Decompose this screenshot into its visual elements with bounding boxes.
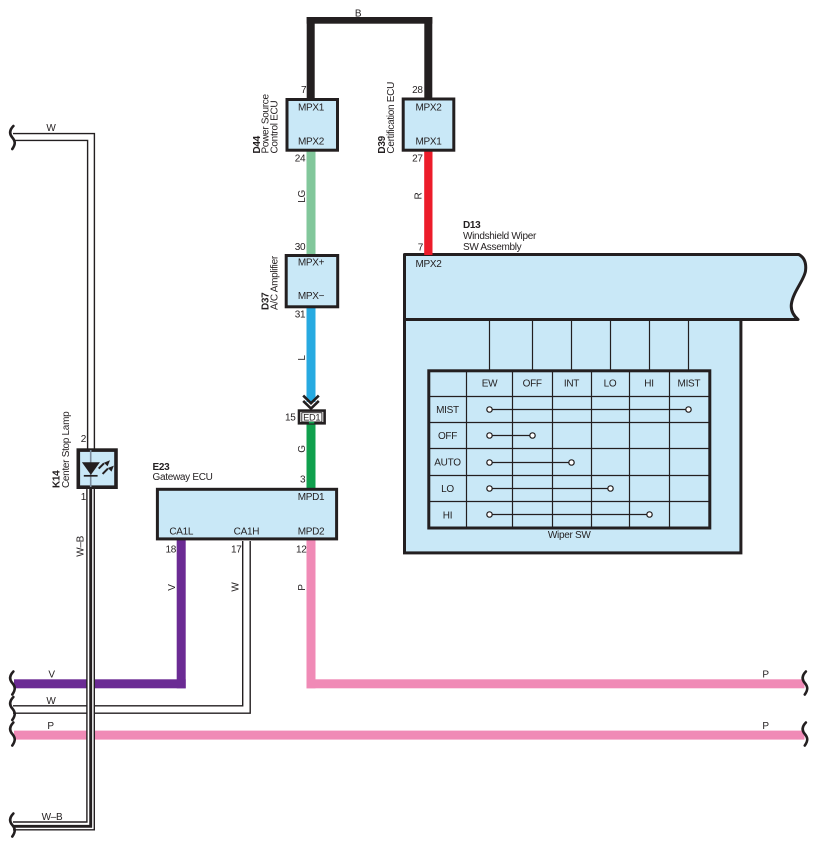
- svg-text:B: B: [355, 8, 362, 19]
- svg-text:P: P: [297, 584, 308, 591]
- svg-text:OFF: OFF: [523, 378, 542, 389]
- switch contact lines: [487, 407, 691, 517]
- wire break squiggle right P lower: [803, 723, 808, 746]
- lamp K14 Center Stop Lamp: [78, 450, 116, 487]
- svg-text:Center Stop Lamp: Center Stop Lamp: [61, 411, 72, 488]
- svg-text:MIST: MIST: [678, 378, 701, 389]
- svg-text:Certification ECU: Certification ECU: [386, 82, 397, 154]
- wire LO row contact: [490, 488, 611, 490]
- svg-text:CA1H: CA1H: [234, 526, 260, 537]
- svg-text:LO: LO: [441, 484, 454, 495]
- svg-text:MPX2: MPX2: [415, 102, 442, 113]
- wire break squiggle bottom W-B: [10, 814, 15, 837]
- label D44 designator (rotated): [252, 94, 281, 154]
- wire V (violet) from E23:18 CA1L down and left: [14, 539, 186, 688]
- svg-text:MPX+: MPX+: [298, 258, 325, 269]
- wire P (pink) from E23:12 MPD2 down then right: [307, 539, 805, 688]
- svg-text:30: 30: [295, 242, 306, 253]
- svg-text:MPX2: MPX2: [298, 137, 325, 148]
- connector D39 Certification ECU: [403, 99, 454, 150]
- connector D37 A/C Amplifier: [286, 256, 338, 307]
- svg-text:1: 1: [81, 492, 87, 503]
- svg-text:P: P: [762, 670, 769, 681]
- svg-text:EW: EW: [482, 378, 498, 389]
- svg-text:MPD1: MPD1: [298, 492, 325, 503]
- svg-text:INT: INT: [564, 378, 579, 389]
- wire R from D39:27 to D13:7: [424, 150, 432, 255]
- svg-text:P: P: [762, 721, 769, 732]
- svg-text:27: 27: [412, 153, 423, 164]
- svg-text:W–B: W–B: [76, 535, 87, 556]
- wire break squiggle left P: [10, 723, 15, 746]
- wire internal ticks from MPX2 band to wiper switch table: [490, 321, 689, 370]
- label D37 designator (rotated): [261, 255, 281, 310]
- wiper switch table grid: [429, 370, 711, 529]
- wire break squiggle top-left W: [10, 126, 15, 149]
- svg-text:Windshield Wiper: Windshield Wiper: [463, 231, 537, 242]
- svg-text:18: 18: [165, 544, 176, 555]
- connector D13 Windshield Wiper SW Assembly : top band with wavy edge: [405, 255, 806, 320]
- wire break squiggle left V: [10, 672, 15, 695]
- wire W (white) from E23:17 CA1H down and left: [13, 541, 250, 713]
- wire OFF row contact: [490, 435, 533, 437]
- svg-text:3: 3: [300, 474, 306, 485]
- svg-text:12: 12: [296, 544, 307, 555]
- wire break squiggle left W: [10, 697, 15, 720]
- label K14 designator (rotated): [52, 411, 73, 488]
- svg-text:D13: D13: [463, 220, 481, 231]
- wire G notch through ED1 bottom border: [309, 422, 314, 424]
- svg-text:L: L: [297, 355, 308, 361]
- svg-text:7: 7: [418, 243, 424, 254]
- shield ground ED1: [299, 411, 325, 424]
- LED diode symbol: [82, 462, 100, 475]
- svg-text:A/C Amplifier: A/C Amplifier: [269, 255, 280, 310]
- wire W-B (white-black stripe) from K14:1 down then left: [13, 489, 94, 830]
- svg-text:OFF: OFF: [438, 431, 457, 442]
- connector E23 Gateway ECU: [157, 489, 336, 539]
- wire break squiggle right P upper: [803, 672, 808, 695]
- svg-text:MPX1: MPX1: [298, 102, 325, 113]
- svg-text:MIST: MIST: [436, 405, 459, 416]
- svg-text:Wiper SW: Wiper SW: [548, 530, 591, 541]
- LED arrow 2: [103, 469, 108, 474]
- svg-text:W: W: [46, 123, 56, 134]
- svg-text:P: P: [47, 721, 54, 732]
- svg-text:W–B: W–B: [42, 812, 63, 823]
- wire HI row contact: [490, 514, 650, 516]
- svg-text:CA1L: CA1L: [169, 526, 194, 537]
- table header texts: [434, 378, 700, 521]
- svg-text:28: 28: [412, 85, 423, 96]
- svg-text:HI: HI: [443, 510, 452, 521]
- svg-text:HI: HI: [644, 378, 653, 389]
- svg-text:LO: LO: [604, 378, 617, 389]
- LED arrow 1: [99, 463, 104, 468]
- svg-text:MPX1: MPX1: [415, 137, 442, 148]
- wire P (pink) lower horizontal bus: [14, 731, 805, 740]
- svg-text:MPX−: MPX−: [298, 291, 325, 302]
- connector D44 Power Source Control ECU: [287, 100, 338, 151]
- wire MIST row contact: [490, 409, 689, 411]
- svg-text:G: G: [297, 445, 308, 453]
- svg-text:AUTO: AUTO: [434, 458, 461, 469]
- wire B ground strap (black) top: [307, 17, 433, 100]
- svg-text:V: V: [48, 670, 55, 681]
- svg-text:MPX2: MPX2: [416, 259, 443, 270]
- svg-text:V: V: [167, 584, 178, 591]
- svg-text:31: 31: [295, 310, 306, 321]
- svg-text:R: R: [414, 192, 425, 199]
- shield arrows above ED1: [303, 396, 319, 409]
- svg-text:MPD2: MPD2: [298, 526, 325, 537]
- wire L from D37:31 to shield arrow: [307, 306, 316, 402]
- label D39 designator (rotated): [377, 82, 397, 154]
- svg-text:17: 17: [231, 544, 242, 555]
- wire W (white) from top-left squiggle to K14:2: [13, 134, 94, 449]
- connector D13 main box: [405, 320, 741, 553]
- svg-text:2: 2: [81, 434, 87, 445]
- wire G from ED1 to E23:3: [307, 423, 316, 489]
- svg-text:7: 7: [301, 85, 307, 96]
- svg-text:Gateway ECU: Gateway ECU: [153, 472, 213, 483]
- svg-text:SW Assembly: SW Assembly: [463, 242, 522, 253]
- svg-text:24: 24: [295, 153, 306, 164]
- wire LG from D44:24 to D37:30: [307, 150, 316, 256]
- svg-text:W: W: [231, 582, 242, 592]
- svg-text:W: W: [46, 696, 56, 707]
- wire AUTO row contact: [490, 462, 572, 464]
- svg-text:LG: LG: [297, 190, 308, 203]
- svg-text:Control ECU: Control ECU: [269, 101, 280, 154]
- wire through lamp: [90, 450, 92, 487]
- svg-text:15: 15: [285, 413, 296, 424]
- svg-text:ED1: ED1: [303, 412, 320, 422]
